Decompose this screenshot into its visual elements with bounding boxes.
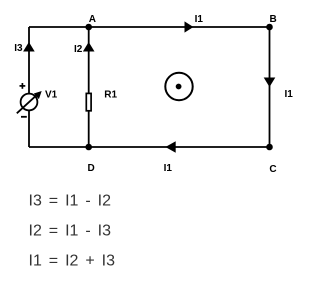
svg-text:I1: I1: [195, 14, 204, 25]
node B: [266, 24, 273, 31]
wire bottom (C-D): [29, 146, 270, 148]
resistor R1: [86, 93, 91, 110]
wire left (D-A branch with V1): [28, 27, 30, 147]
svg-text:B: B: [270, 14, 277, 25]
wire right (B-C): [269, 27, 271, 147]
svg-text:I2: I2: [74, 44, 83, 55]
arrow I1 (left, bottom wire): [165, 141, 175, 153]
wire top (A-B segment of loop): [29, 26, 270, 28]
arrow I2 (up, middle branch): [83, 42, 95, 52]
svg-text:D: D: [88, 163, 95, 174]
svg-text:V1: V1: [45, 89, 58, 100]
svg-text:I1 = I2 + I3: I1 = I2 + I3: [29, 253, 116, 270]
current direction symbol (dot in circle): [165, 73, 192, 100]
V1 minus sign: [21, 116, 27, 118]
arrow I1 (right, top wire): [185, 21, 194, 32]
V1 plus sign: [20, 83, 26, 89]
node D: [85, 144, 92, 151]
arrow I1 (down, right wire): [264, 78, 276, 88]
svg-text:R1: R1: [104, 89, 117, 100]
wire middle (A-D branch with R1): [88, 27, 90, 147]
svg-text:I1: I1: [285, 89, 294, 100]
arrow I3 (up, left branch): [23, 42, 35, 52]
svg-text:I2 = I1 - I3: I2 = I1 - I3: [29, 223, 112, 240]
node C: [266, 144, 273, 151]
voltage source V1: [17, 91, 42, 113]
svg-text:I3: I3: [14, 43, 23, 54]
svg-text:I3 = I1 - I2: I3 = I1 - I2: [29, 193, 112, 210]
node A: [85, 24, 92, 31]
svg-text:I1: I1: [164, 163, 173, 174]
svg-text:A: A: [89, 14, 96, 25]
svg-text:C: C: [269, 164, 276, 175]
